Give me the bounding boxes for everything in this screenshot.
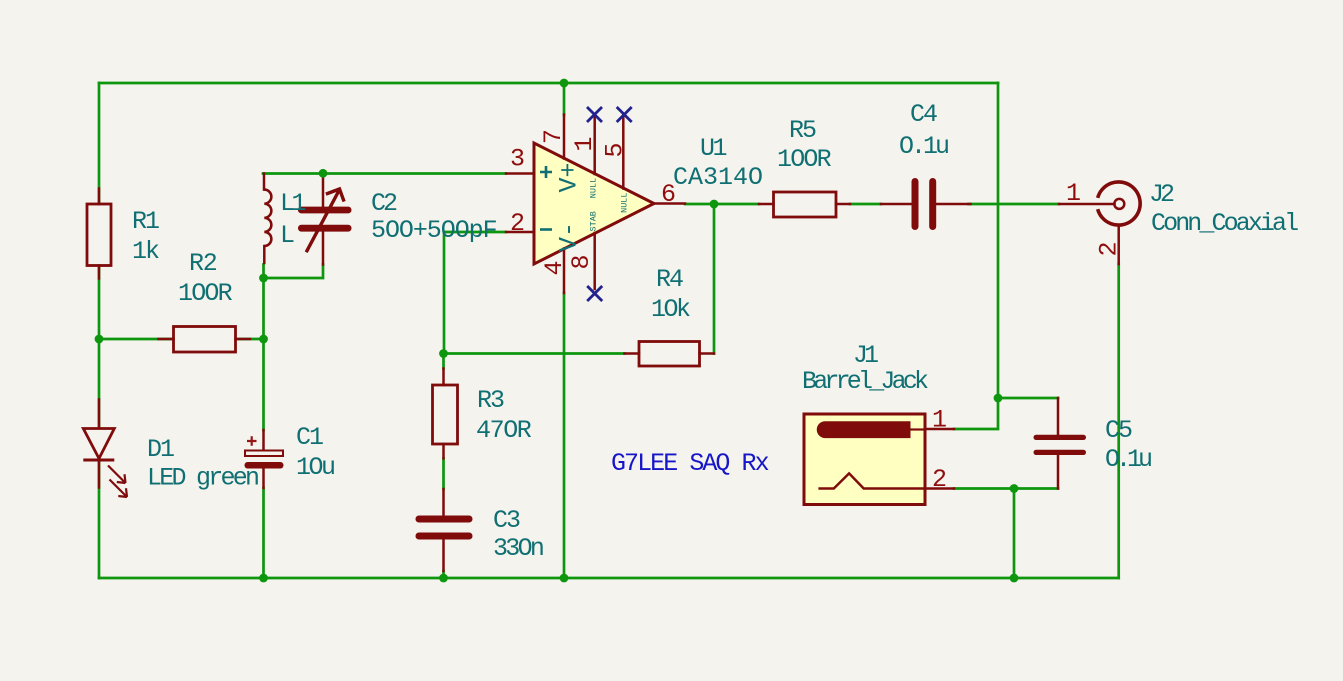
svg-text:J1: J1	[853, 341, 878, 370]
svg-text:R1: R1	[132, 207, 159, 236]
svg-text:33On: 33On	[493, 534, 543, 563]
svg-text:1: 1	[932, 406, 947, 435]
svg-text:1k: 1k	[132, 237, 159, 266]
svg-text:1: 1	[1066, 179, 1081, 208]
svg-text:C4: C4	[910, 100, 937, 129]
svg-text:C2: C2	[371, 189, 397, 218]
svg-text:G7LEE SAQ Rx: G7LEE SAQ Rx	[611, 449, 769, 478]
svg-text:D1: D1	[147, 435, 174, 464]
svg-text:R4: R4	[656, 265, 683, 294]
svg-text:2: 2	[510, 209, 525, 238]
svg-text:CA314O: CA314O	[673, 163, 763, 192]
svg-text:1Ou: 1Ou	[296, 453, 334, 482]
svg-text:R3: R3	[477, 386, 504, 415]
svg-text:Barrel_Jack: Barrel_Jack	[802, 367, 928, 396]
svg-text:5: 5	[601, 142, 630, 157]
svg-text:1OOR: 1OOR	[777, 145, 832, 174]
svg-text:R5: R5	[789, 116, 816, 145]
svg-text:2: 2	[1095, 241, 1124, 256]
svg-text:O.1u: O.1u	[1105, 445, 1151, 474]
svg-text:C5: C5	[1105, 416, 1132, 445]
svg-text:O.1u: O.1u	[899, 132, 948, 161]
svg-text:5OO+5OOpF: 5OO+5OOpF	[371, 216, 497, 245]
svg-text:V+: V+	[555, 162, 584, 192]
svg-text:R2: R2	[189, 249, 217, 278]
svg-text:4: 4	[540, 260, 569, 275]
svg-text:Conn_Coaxial: Conn_Coaxial	[1151, 209, 1298, 238]
svg-text:J2: J2	[1149, 180, 1174, 209]
svg-text:7: 7	[539, 129, 568, 144]
svg-text:1OOR: 1OOR	[178, 279, 233, 308]
svg-text:1: 1	[570, 136, 599, 151]
svg-text:U1: U1	[700, 134, 727, 163]
svg-text:L1: L1	[280, 189, 306, 218]
svg-text:47OR: 47OR	[476, 416, 532, 445]
svg-text:LED green: LED green	[147, 464, 258, 493]
svg-text:8: 8	[567, 254, 596, 269]
svg-text:V-: V-	[555, 222, 584, 252]
svg-text:NULL: NULL	[620, 192, 630, 212]
svg-text:6: 6	[661, 180, 676, 209]
svg-text:3: 3	[510, 145, 525, 174]
svg-text:NULL: NULL	[589, 178, 599, 198]
svg-text:STAB: STAB	[589, 211, 599, 231]
svg-text:C1: C1	[296, 423, 323, 452]
svg-text:L: L	[280, 221, 295, 250]
svg-text:1Ok: 1Ok	[651, 295, 690, 324]
svg-text:C3: C3	[493, 506, 520, 535]
svg-text:2: 2	[932, 465, 947, 494]
